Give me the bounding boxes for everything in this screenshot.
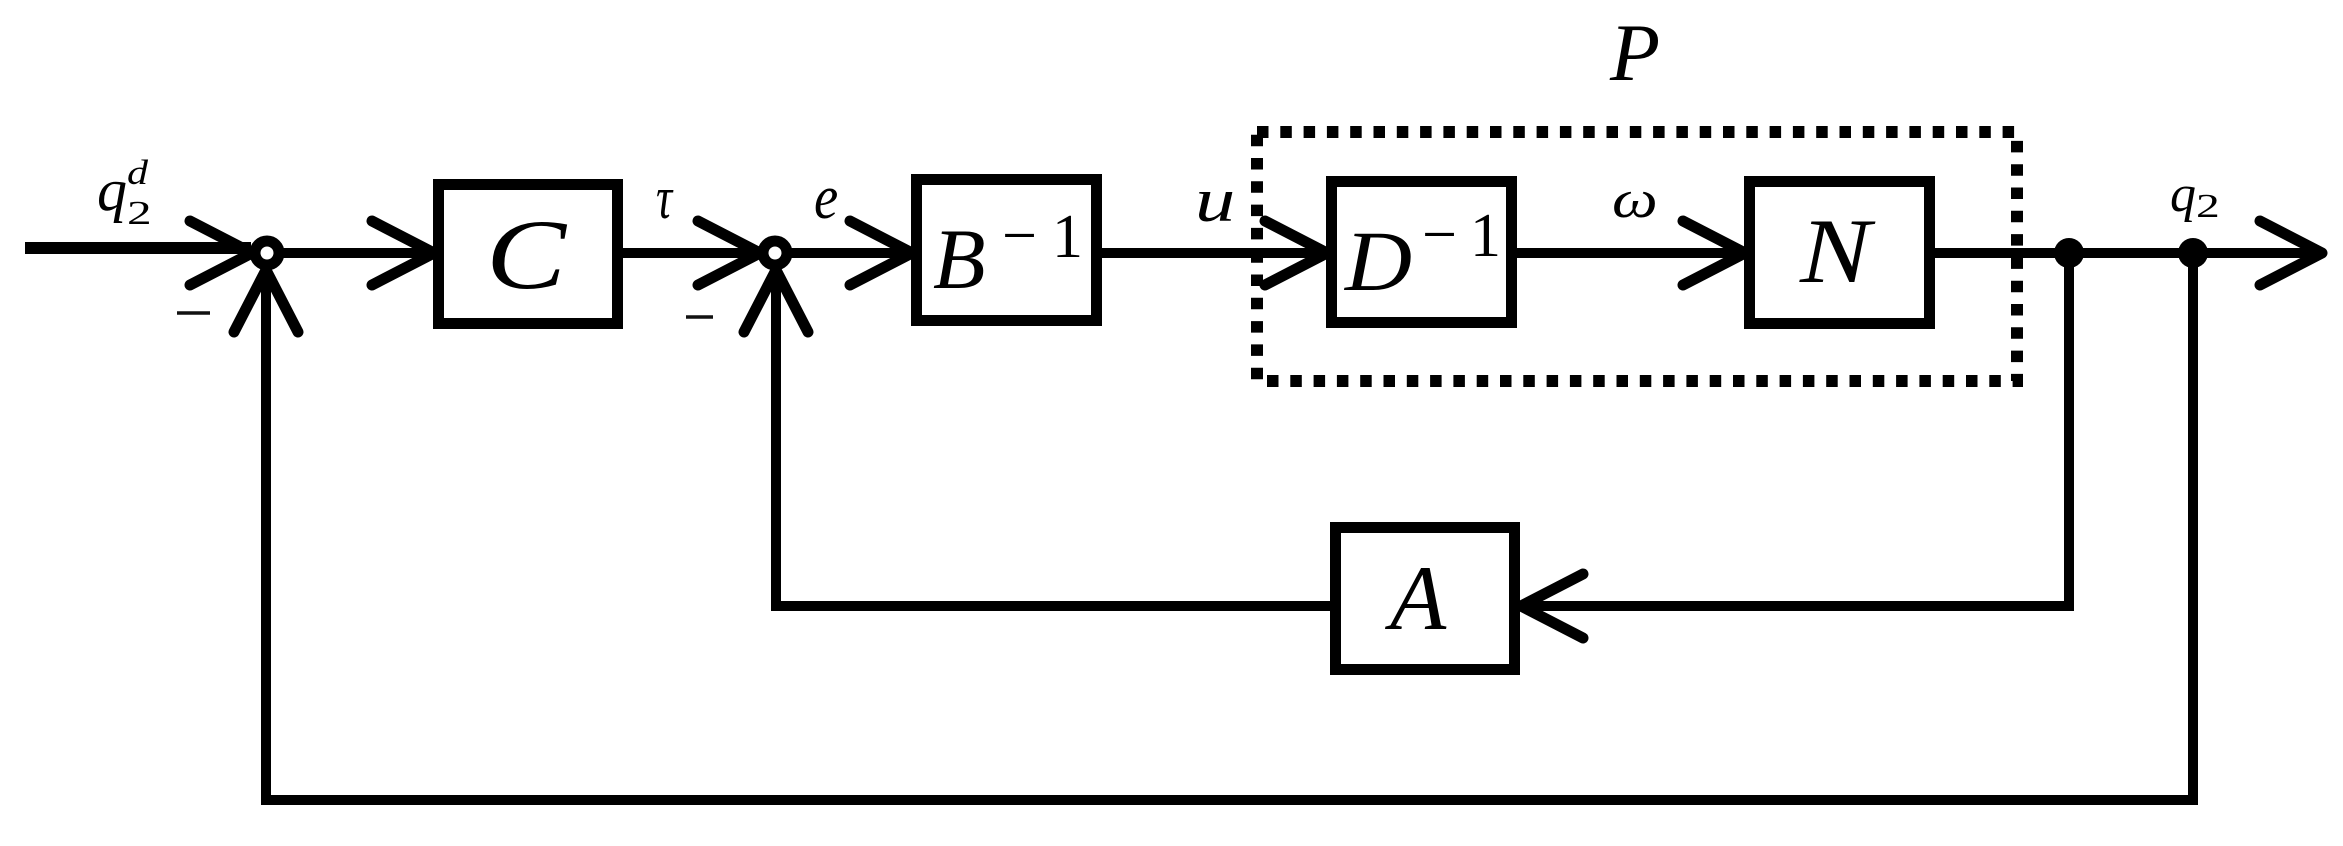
- block N: [1750, 182, 1930, 324]
- arrowhead into junction 1: [190, 221, 252, 285]
- svg-text:A: A: [1384, 547, 1447, 649]
- svg-text:q: q: [2170, 166, 2196, 223]
- block A: [1336, 528, 1515, 670]
- arrowhead into N: [1683, 221, 1745, 285]
- svg-text:d: d: [127, 154, 149, 192]
- wire: block C to junction 2: [618, 248, 759, 258]
- svg-text:1: 1: [1052, 203, 1083, 271]
- arrowhead up into junction 1: [234, 270, 298, 332]
- svg-text:D: D: [1344, 214, 1412, 309]
- svg-text:ω: ω: [1612, 169, 1658, 229]
- arrowhead into D^-1: [1265, 221, 1327, 285]
- arrowhead into C: [372, 221, 434, 285]
- wire: junction 2 to block B^-1: [791, 248, 916, 258]
- svg-text:P: P: [1609, 7, 1660, 98]
- svg-text:u: u: [1195, 166, 1235, 235]
- dashed box P: [1257, 132, 2017, 381]
- wire: input to summing junction 1: [25, 242, 251, 254]
- arrowhead at output q2: [2260, 221, 2322, 285]
- arrowhead into junction 2: [698, 221, 760, 285]
- block D^-1: [1332, 182, 1512, 323]
- svg-text:−: −: [1002, 202, 1037, 270]
- wire: block N to output: [1930, 248, 2316, 258]
- svg-text:2: 2: [2196, 187, 2220, 225]
- svg-text:1: 1: [1470, 202, 1501, 270]
- summing junction 1: [255, 241, 279, 265]
- svg-text:−: −: [1422, 201, 1457, 269]
- wire: junction 1 to block C: [283, 248, 440, 258]
- wire: A output to junction 2: [776, 270, 1334, 606]
- minus sign at junction 2: [686, 315, 713, 319]
- svg-text:2: 2: [127, 194, 152, 232]
- svg-text:q: q: [97, 157, 127, 223]
- node dot 2: [2178, 238, 2208, 268]
- wire: block B^-1 to block D^-1: [1097, 248, 1330, 258]
- arrowhead into B^-1: [850, 221, 912, 285]
- wire: inner feedback from node to A input: [1524, 253, 2069, 606]
- node dot 1: [2054, 238, 2084, 268]
- svg-text:τ: τ: [656, 166, 674, 232]
- wire: block D^-1 to block N: [1512, 248, 1748, 258]
- svg-text:N: N: [1799, 201, 1876, 302]
- arrowhead up into junction 2: [744, 270, 808, 332]
- svg-text:C: C: [486, 199, 567, 309]
- svg-text:e: e: [814, 163, 838, 232]
- minus sign at junction 1: [177, 311, 210, 315]
- block B^-1: [917, 180, 1097, 321]
- wire: outer feedback loop (right vertical, bottom, left vertical): [266, 253, 2193, 800]
- summing junction 2: [763, 241, 787, 265]
- arrowhead into A: [1521, 574, 1583, 638]
- svg-text:B: B: [933, 211, 986, 307]
- block C: [439, 185, 618, 324]
